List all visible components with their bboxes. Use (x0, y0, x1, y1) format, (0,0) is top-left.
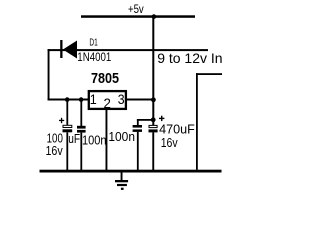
pin 2 label (104, 96, 111, 111)
wire ground bottom rail (40, 170, 222, 173)
pin 3 label (118, 91, 125, 107)
svg-text:100n: 100n (108, 129, 135, 144)
op-amp U1 7805 regulator box (89, 91, 126, 109)
svg-text:1N4001: 1N4001 (77, 51, 111, 64)
capacitor C2 bottom lead (80, 133, 82, 171)
capacitor C1 100uF plus sign (59, 118, 64, 123)
svg-text:D1: D1 (89, 36, 98, 48)
ground symbol (115, 173, 128, 190)
label 1N4001 (77, 51, 111, 64)
label uF (68, 132, 80, 146)
capacitor C4 470uF plates (149, 125, 158, 132)
label D1 (89, 36, 98, 48)
node junction C2 top (79, 97, 84, 102)
svg-text:1: 1 (90, 92, 97, 108)
pin 1 label (90, 92, 97, 108)
wire regulator pin1 input line (48, 99, 88, 101)
capacitor C4 bottom lead (152, 132, 154, 171)
svg-text:3: 3 (118, 91, 125, 107)
capacitor C2 100n plates (77, 126, 86, 133)
svg-text:uF: uF (68, 132, 80, 146)
svg-text:100n: 100n (82, 132, 107, 147)
label 470uF (159, 121, 195, 136)
capacitor C3 100n top lead (137, 119, 139, 125)
wire pin3 output line (127, 99, 154, 101)
node junction 470uF top (151, 117, 156, 122)
label +5v (128, 3, 144, 16)
label 16v right (161, 135, 178, 150)
label 100n middle (108, 129, 135, 144)
label 16v left (46, 143, 63, 158)
capacitor C2 100n top lead (80, 100, 82, 126)
svg-text:16v: 16v (161, 135, 178, 150)
label 9 to 12v In (157, 50, 222, 66)
wire +5v top rail (81, 15, 195, 17)
capacitor C3 bottom lead (137, 132, 139, 171)
node junction output at +5v line (151, 97, 156, 102)
capacitor C1 100uF plates (63, 125, 73, 132)
capacitor C1 bottom lead (66, 132, 68, 171)
capacitor C3 100n plates (133, 125, 142, 132)
svg-text:2: 2 (104, 96, 111, 111)
label 100n left (82, 132, 107, 147)
svg-text:9 to 12v In: 9 to 12v In (157, 50, 222, 66)
svg-text:16v: 16v (46, 143, 63, 158)
label 7805 (91, 69, 119, 86)
svg-text:+5v: +5v (128, 3, 144, 16)
diode D1 (60, 40, 77, 59)
wire left loop vertical (48, 49, 50, 100)
wire pin2 lead to ground rail (106, 110, 108, 171)
node junction on +5v rail (152, 14, 157, 19)
svg-text:7805: 7805 (91, 69, 119, 86)
capacitor C4 470uF plus sign (159, 116, 164, 121)
wire +5v vertical (rail to 470uF top plate) (152, 17, 154, 126)
wire 9-12v In drop corner (196, 73, 222, 170)
node junction C1 top (65, 97, 70, 102)
capacitor C1 100uF top lead (66, 100, 68, 125)
label 100 (47, 132, 63, 146)
wire 9-12v input line (48, 49, 208, 51)
wire C3 link to output node (137, 119, 153, 121)
